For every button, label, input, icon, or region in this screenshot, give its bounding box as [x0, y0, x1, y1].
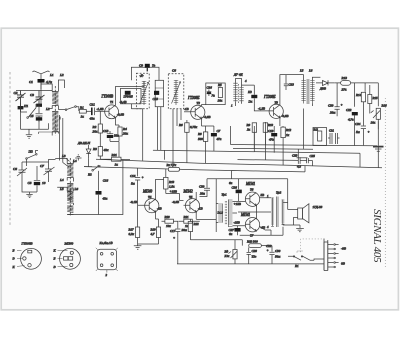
- svg-text:ГТ308В: ГТ308В: [101, 95, 114, 99]
- svg-text:R3: R3: [92, 147, 97, 151]
- svg-text:С20: С20: [328, 104, 334, 108]
- Tr1 secondary taps: [233, 201, 246, 225]
- speaker wires: [283, 202, 300, 228]
- svg-text:+: +: [368, 130, 370, 134]
- ground right: [373, 121, 384, 167]
- svg-text:7н: 7н: [212, 94, 216, 98]
- wire rail y151.2: [153, 150, 360, 153]
- collector wires to Tr2: [260, 198, 271, 230]
- capacitor C9 blob on top wire: [145, 64, 150, 68]
- svg-text:L6: L6: [74, 187, 79, 191]
- svg-text:L3: L3: [61, 154, 66, 158]
- wire box bottom to R23: [190, 240, 242, 250]
- svg-text:Rд: Rд: [224, 250, 229, 254]
- svg-text:47н: 47н: [217, 137, 222, 141]
- vertical from C17e: [177, 238, 179, 264]
- svg-text:R11: R11: [313, 128, 319, 132]
- svg-text:Б: Б: [12, 249, 15, 253]
- capacitor C7 blob: [211, 126, 222, 151]
- capacitor C22 blob: [346, 108, 358, 145]
- resistor R14: [355, 92, 366, 102]
- svg-text:1к: 1к: [115, 163, 119, 167]
- svg-text:+: +: [267, 249, 269, 253]
- V2 collector up: [202, 105, 206, 106]
- svg-text:L4: L4: [59, 178, 64, 182]
- svg-text:R12: R12: [285, 128, 292, 132]
- resistor R3: [92, 147, 109, 157]
- svg-text:R16: R16: [381, 104, 388, 108]
- wire V5 collector to Tr1: [196, 204, 218, 223]
- svg-text:R22: R22: [193, 222, 200, 226]
- svg-text:Т1: Т1: [110, 100, 114, 104]
- svg-text:R2: R2: [92, 125, 97, 129]
- svg-text:Т5: Т5: [189, 195, 193, 199]
- capacitor C20 electrolytic: [328, 103, 343, 116]
- R19b vertical: [188, 219, 199, 240]
- tap wire to switch/R1: [58, 109, 65, 111]
- svg-text:R9: R9: [246, 123, 251, 127]
- svg-text:+15В: +15В: [234, 202, 241, 206]
- svg-text:1ГД-28: 1ГД-28: [313, 205, 323, 209]
- svg-text:43н: 43н: [103, 197, 108, 201]
- wire box C top to top rail: [158, 79, 160, 81]
- power switch B1: [288, 251, 314, 268]
- switch contact mid-left: [84, 165, 101, 176]
- svg-text:С20: С20: [199, 185, 205, 189]
- svg-text:C3: C3: [30, 93, 34, 97]
- svg-text:-1В: -1В: [198, 207, 203, 211]
- svg-text:20к: 20к: [93, 130, 98, 134]
- coil top connections: [41, 80, 64, 92]
- svg-text:L2: L2: [59, 73, 64, 77]
- rail145 end to ground: [373, 145, 377, 147]
- C28a cap near V3 collector: [284, 75, 294, 90]
- svg-text:R18: R18: [168, 180, 175, 184]
- resistor R6: [178, 120, 198, 163]
- bottom wire of stage: [240, 227, 283, 236]
- top feedback wire: [131, 67, 159, 80]
- svg-text:Т6: Т6: [250, 188, 254, 192]
- capacitor C23: [292, 149, 307, 170]
- ground AF: [134, 244, 142, 249]
- resistor R15: [368, 85, 378, 114]
- output stage box top rail: [207, 179, 288, 210]
- svg-text:+15В: +15В: [170, 190, 177, 194]
- svg-text:R4: R4: [122, 127, 127, 131]
- svg-text:47н: 47н: [269, 138, 274, 142]
- svg-text:С16: С16: [130, 174, 136, 178]
- wire rail y157.8 short right: [297, 157, 308, 159]
- svg-text:+: +: [142, 176, 144, 180]
- svg-text:10к: 10к: [166, 224, 171, 228]
- svg-text:-15В: -15В: [234, 221, 240, 225]
- resistor R21 horizontal: [111, 153, 122, 167]
- V3 emitter down: [279, 118, 281, 126]
- svg-text:R20: R20: [164, 215, 171, 219]
- output transformer Tr2: [267, 191, 284, 230]
- wire antenna to coil: [40, 83, 42, 107]
- svg-text:+: +: [173, 236, 175, 240]
- verticals tying rails: [231, 122, 284, 152]
- svg-text:27к: 27к: [342, 88, 347, 92]
- capacitor C18 blob: [247, 85, 257, 103]
- svg-text:L6: L6: [308, 69, 313, 73]
- junction wires between clusters: [49, 160, 56, 163]
- svg-text:Юк: Юк: [224, 254, 230, 258]
- svg-text:C11: C11: [90, 103, 96, 107]
- ferrite rod L3 L4: [59, 154, 77, 202]
- resistor R4: [118, 127, 128, 136]
- wire rail U: [238, 159, 299, 162]
- svg-text:L4: L4: [72, 159, 77, 163]
- transistor Q6 MP41 top: [245, 182, 264, 206]
- svg-text:С6: С6: [172, 69, 176, 73]
- connector Kl pinout: [96, 241, 118, 277]
- capacitor C25: [307, 154, 316, 166]
- cap C21e electrolytic: [170, 221, 187, 240]
- svg-text:6н: 6н: [229, 181, 233, 185]
- resistor R22b 300: [246, 240, 272, 248]
- ground band2: [26, 192, 32, 198]
- svg-text:R21: R21: [183, 215, 190, 219]
- transistor Q2 GT308B: [187, 96, 205, 120]
- resistor R18 top: [164, 169, 180, 194]
- svg-text:Т2в: Т2в: [252, 255, 257, 259]
- svg-text:Д9В: Д9В: [319, 87, 326, 91]
- bypass cap C blob: [103, 129, 119, 141]
- dotted page edge line right: [384, 98, 386, 268]
- svg-text:R17: R17: [128, 228, 135, 232]
- svg-text:R1: R1: [79, 106, 84, 110]
- variable capacitor C3: [30, 91, 45, 107]
- svg-text:10к: 10к: [371, 121, 376, 125]
- capacitor C19 blob: [268, 126, 277, 153]
- svg-text:20н: 20н: [200, 192, 205, 196]
- svg-text:Тр2: Тр2: [276, 191, 281, 195]
- ferrite rod L1 L2: [45, 73, 64, 136]
- V5 collector/emitter: [195, 192, 197, 219]
- svg-text:C6: C6: [13, 167, 17, 171]
- svg-text:Д7 4Д: Д7 4Д: [233, 72, 243, 76]
- emitter resistor R2: [92, 124, 103, 134]
- diode D9V: [316, 80, 334, 90]
- svg-text:43к: 43к: [104, 148, 109, 152]
- svg-text:5В: 5В: [261, 193, 265, 197]
- potentiometer R16 volume: [371, 104, 388, 130]
- capacitor C24 electrolytic: [355, 102, 370, 145]
- svg-text:1к: 1к: [286, 133, 290, 137]
- capacitor C28: [247, 247, 258, 264]
- resistor R1: [79, 106, 86, 119]
- wire Tr1 top to box / collector top: [270, 197, 272, 199]
- resistor R17: [128, 227, 140, 244]
- switch contact K: [65, 106, 79, 111]
- svg-text:ГТ308В: ГТ308В: [21, 241, 33, 245]
- svg-text:6н: 6н: [229, 232, 233, 236]
- svg-text:33н: 33н: [114, 134, 119, 138]
- V1 collector wire up into IF box: [116, 81, 145, 106]
- svg-text:-Д-: -Д-: [140, 74, 144, 78]
- capacitor C4: [90, 103, 96, 121]
- emitter join wires: [238, 205, 271, 220]
- band switch contact P1a: [21, 103, 37, 118]
- svg-text:20м: 20м: [330, 111, 335, 115]
- wires under boxes: [131, 104, 142, 161]
- svg-text:П2: П2: [28, 150, 33, 154]
- capacitor C30 electrolytic: [267, 246, 281, 264]
- svg-text:C9: C9: [139, 64, 143, 68]
- resistor R13 (rounded): [341, 76, 351, 91]
- svg-text:С30: С30: [275, 249, 281, 253]
- resistor R12: [281, 127, 292, 165]
- AGC filter box: [313, 128, 327, 146]
- svg-text:-1В: -1В: [184, 107, 189, 111]
- transistor Q5 MP42: [172, 190, 200, 213]
- svg-text:C1: C1: [29, 80, 33, 84]
- svg-text:C5: C5: [30, 114, 34, 118]
- box E with C16 and R5: [206, 83, 225, 105]
- svg-text:-9В: -9В: [341, 247, 346, 251]
- switch P2: [26, 150, 38, 167]
- svg-text:L2: L2: [45, 107, 50, 111]
- svg-text:С24: С24: [355, 122, 361, 126]
- trimmer C2: [14, 91, 26, 113]
- V4 base wire: [138, 198, 143, 227]
- svg-text:1к: 1к: [81, 115, 85, 119]
- wires band2: [22, 162, 49, 192]
- svg-text:C13: C13: [103, 129, 109, 133]
- speaker Gr1: [298, 204, 323, 223]
- IF transformer box D (dashed): [168, 69, 184, 109]
- svg-text:МП42: МП42: [183, 190, 193, 194]
- capacitor C8 blob: [28, 166, 46, 192]
- ground band1: [26, 135, 32, 138]
- resistor R19: [138, 219, 161, 244]
- svg-text:0В: 0В: [341, 262, 345, 266]
- coil band2 connections: [55, 159, 73, 182]
- capacitor C27 blob: [229, 226, 241, 236]
- svg-text:С7: С7: [217, 129, 221, 133]
- resistor R21b horizontal: [179, 215, 200, 228]
- svg-text:Т3: Т3: [275, 101, 279, 105]
- capacitor C26 blob: [229, 179, 242, 202]
- svg-text:ПЧ465: ПЧ465: [123, 94, 134, 98]
- svg-text:50м: 50м: [275, 255, 280, 259]
- svg-text:10: 10: [42, 181, 46, 185]
- svg-text:20м: 20м: [182, 228, 187, 232]
- svg-text:R21: R21: [111, 153, 118, 157]
- antenna W1: [32, 71, 49, 89]
- svg-text:Dк: Dк: [248, 100, 253, 104]
- capacitor C1 (series blob): [38, 79, 45, 83]
- svg-text:R10: R10: [267, 123, 274, 127]
- svg-text:Б: Б: [53, 257, 56, 261]
- svg-text:5м: 5м: [356, 130, 360, 134]
- svg-text:ГТ308Б: ГТ308Б: [187, 96, 200, 100]
- pinout GT308V: [12, 241, 42, 269]
- svg-text:С16: С16: [207, 86, 213, 90]
- wire switch to battery: [314, 259, 324, 260]
- svg-text:20к: 20к: [123, 132, 128, 136]
- wire R1 to C4: [86, 110, 91, 112]
- svg-text:С22: С22: [346, 108, 352, 112]
- svg-text:П1: П1: [23, 104, 28, 108]
- capacitor C10 blob on x98.5: [96, 171, 109, 215]
- mech link dashed: [301, 239, 322, 253]
- IF transformer box B (dashed): [136, 73, 149, 109]
- capacitor C20 to box top: [200, 179, 211, 197]
- V3 base wire from C18: [254, 103, 269, 111]
- svg-text:С23: С23: [292, 154, 298, 158]
- svg-text:SIGNAL 405: SIGNAL 405: [371, 209, 383, 263]
- ground under speaker: [296, 228, 304, 231]
- caps beside AGC box: [328, 129, 340, 145]
- resistor R8: [197, 126, 214, 163]
- resistor R10: [263, 123, 273, 160]
- svg-text:R23 300: R23 300: [246, 240, 258, 244]
- transistor Q1: [101, 95, 119, 119]
- coupling cap C16 electrolytic: [130, 168, 144, 198]
- svg-text:L5: L5: [299, 69, 304, 73]
- capacitor C5: [30, 104, 43, 122]
- bottom ground rail: [177, 263, 324, 265]
- resistor R9: [246, 123, 257, 149]
- wires to ground band1: [21, 112, 49, 134]
- svg-text:R6: R6: [178, 123, 183, 127]
- svg-text:-2В: -2В: [157, 207, 162, 211]
- svg-text:5м: 5м: [131, 182, 135, 186]
- trimmer C6: [13, 166, 27, 178]
- V1 emitter wire down: [116, 118, 120, 127]
- svg-text:C2: C2: [14, 91, 18, 95]
- svg-text:ГТ308Б: ГТ308Б: [263, 95, 276, 99]
- transistor Q7 MP41 bottom: [240, 213, 265, 238]
- svg-text:10к: 10к: [218, 99, 223, 103]
- svg-text:С15: С15: [153, 97, 159, 101]
- rail151 right termination: [359, 153, 361, 167]
- resistor Rx 7.7k on rail Q: [168, 167, 179, 171]
- resistor R20 horizontal: [162, 215, 179, 228]
- V2 base wire: [184, 111, 191, 113]
- wire C4 to V1 base: [95, 110, 105, 112]
- battery / connector X: [324, 239, 346, 271]
- variable capacitor C7: [40, 162, 55, 176]
- left margin dashed line: [9, 72, 11, 226]
- vertical x122.9: [99, 160, 123, 214]
- transistor Q3 GT308B: [263, 95, 283, 118]
- svg-text:+: +: [341, 103, 343, 107]
- IF box C (solid) with cap C15: [153, 80, 164, 106]
- wire: [60, 115, 70, 167]
- interstage transformer Tr1: [217, 193, 233, 227]
- transistor Q4 MP40: [130, 190, 159, 213]
- wire rail T: [233, 147, 313, 150]
- svg-text:C8: C8: [28, 181, 32, 185]
- svg-text:С25: С25: [310, 154, 316, 158]
- svg-text:43н: 43н: [90, 117, 95, 121]
- wire transformer bottom to rail T: [303, 109, 305, 149]
- svg-text:КЗ: КЗ: [247, 90, 252, 94]
- filter box A (solid): [120, 88, 142, 105]
- 3rd IF / detector transformer: [299, 69, 320, 107]
- svg-text:R14: R14: [355, 93, 362, 97]
- svg-text:R19: R19: [150, 228, 157, 232]
- svg-text:МП40: МП40: [64, 241, 74, 245]
- svg-text:2к: 2к: [247, 128, 251, 132]
- svg-text:Тр1: Тр1: [222, 193, 227, 197]
- svg-text:С26: С26: [232, 185, 238, 189]
- svg-text:В1: В1: [295, 264, 299, 268]
- svg-text:Т4: Т4: [148, 195, 152, 199]
- svg-text:С19: С19: [268, 129, 274, 133]
- svg-text:R13: R13: [341, 76, 348, 80]
- 2nd IF transformer: [231, 72, 254, 107]
- ground above coil L3: [75, 155, 81, 161]
- V3 collector wire up: [280, 75, 304, 105]
- ferrite rod L5 L6 (second coil pair): [57, 187, 98, 216]
- svg-text:С17: С17: [170, 229, 176, 233]
- svg-text:МП40: МП40: [142, 190, 152, 194]
- svg-text:C7: C7: [40, 164, 44, 168]
- svg-text:С28: С28: [252, 249, 258, 253]
- wire rail y168.8: [96, 159, 382, 168]
- svg-text:МП41: МП41: [245, 182, 255, 186]
- svg-text:МП41: МП41: [240, 213, 250, 217]
- pinout MP40: [53, 241, 81, 269]
- svg-text:L1: L1: [49, 73, 54, 77]
- svg-text:R8: R8: [197, 132, 202, 136]
- svg-text:С16: С16: [103, 179, 109, 183]
- V4-V5 coupling wire: [156, 180, 184, 201]
- Tr1 primary feed vertical: [215, 179, 217, 232]
- top rail right of R13: [334, 83, 378, 107]
- V4 collector down: [155, 190, 157, 220]
- svg-text:В2: В2: [88, 173, 92, 177]
- svg-text:R15: R15: [372, 96, 379, 100]
- diode D9V: [77, 141, 91, 158]
- wires below C/D: [153, 107, 181, 170]
- potentiometer R23: [224, 250, 238, 264]
- svg-text:Т2: Т2: [197, 101, 201, 105]
- svg-text:С32: С32: [266, 244, 272, 248]
- svg-text:R5: R5: [217, 83, 222, 87]
- svg-text:560: 560: [198, 137, 203, 141]
- svg-text:С21: С21: [329, 129, 335, 133]
- svg-text:С13: С13: [289, 83, 295, 87]
- node top wire: [16, 90, 52, 92]
- wire rail y145: [231, 145, 374, 146]
- V2 emitter down: [201, 119, 203, 126]
